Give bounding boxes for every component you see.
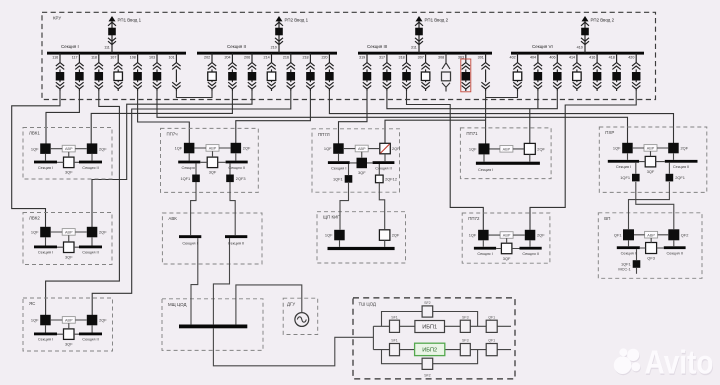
incoming breaker 410 from РП2 Ввод 2 (581, 16, 589, 53)
internal wires of ЯС (46, 320, 93, 334)
feeder breaker 220 (325, 53, 334, 91)
svg-text:3QF: 3QF (358, 170, 366, 175)
breaker 2QF of ЛВК2 (87, 227, 98, 238)
АВР auto-transfer unit of ЯС (62, 317, 75, 324)
breaker 1QF of ЛВК2 (40, 227, 51, 238)
wire АВК bus II to МЩ ЦОД (213, 238, 229, 325)
sub-breaker 1QF1 of ПП7ч (192, 175, 200, 183)
svg-text:2QF: 2QF (99, 146, 107, 151)
panel ПП72 dashed box (462, 213, 550, 263)
bus Секция II of АВК (225, 235, 247, 238)
switch SF3 (bottom row) (460, 344, 470, 356)
svg-text:1QF: 1QF (175, 146, 183, 151)
switch SF1 (bottom row) (390, 344, 400, 356)
panel ЩП КИП dashed box (317, 212, 406, 263)
svg-text:1QF: 1QF (324, 146, 332, 151)
svg-text:210: 210 (271, 45, 277, 49)
svg-text:318: 318 (399, 55, 405, 59)
bus Секция I of ЛВК2 (34, 246, 57, 249)
panel МЩ ЦОД dashed box (162, 299, 263, 351)
wire 319 to ПП7Л 1QF (339, 91, 368, 144)
red highlight box around feeder 303 (461, 59, 471, 92)
wire 220 to ПХР 2QF (329, 91, 673, 143)
svg-text:108: 108 (130, 55, 136, 59)
svg-text:3QF: 3QF (65, 170, 73, 175)
wire ПХР 1QF1 to ВП QF2 (636, 182, 674, 229)
svg-text:2QF: 2QF (392, 233, 400, 238)
busbar Секция I (47, 52, 186, 55)
feeder breaker 108 (133, 53, 142, 91)
bus Секция I of ЯС (34, 333, 57, 336)
svg-text:ПП72: ПП72 (468, 216, 480, 221)
tie feeder 301 (481, 53, 489, 91)
wire ПП7ч 2QF3 to АВК bus II (230, 182, 235, 235)
bus Секция I of ЛВК1 (34, 161, 57, 164)
incoming breaker 210 from РП2 Ввод 1 (275, 16, 283, 53)
feeder breaker 319 (363, 53, 372, 91)
breaker 2QF of ЩП КИП (379, 230, 390, 241)
svg-text:SF3: SF3 (462, 315, 469, 319)
internal wires of ВП (629, 235, 674, 248)
bus Секция I of АВК (179, 235, 201, 238)
wire 318 to ПП72 1QF (407, 91, 484, 230)
feeder breaker 218 (306, 53, 315, 91)
panel ЛВК2 dashed box (23, 213, 112, 265)
svg-text:Секция III: Секция III (367, 44, 387, 49)
wire 218 to ПП7ч 2QF (236, 91, 311, 143)
bus Секция II of ВП (664, 246, 686, 249)
svg-text:Секция I: Секция I (616, 164, 631, 169)
wire tie 101 to 202 (176, 91, 212, 98)
wire 317/404/406 rail to ПП71 2QF (387, 91, 557, 144)
feeder breaker 214 (open) (267, 53, 276, 91)
feeder breaker 318 (402, 53, 411, 91)
diesel generator circle ДГУ (295, 313, 309, 327)
svg-text:Секция II: Секция II (673, 164, 689, 169)
svg-text:118: 118 (91, 55, 97, 59)
internal wires of ПП7ч (189, 148, 236, 162)
svg-text:308: 308 (438, 55, 444, 59)
svg-text:2QF: 2QF (537, 233, 545, 238)
breaker 2QF of ЛВК1 (87, 143, 98, 154)
svg-text:107: 107 (110, 55, 116, 59)
АВР auto-transfer unit of ЛВК1 (62, 145, 75, 152)
svg-text:3QF: 3QF (209, 170, 217, 175)
panel ПХР dashed box (599, 127, 707, 192)
svg-text:3QF: 3QF (65, 342, 73, 347)
svg-text:АВР: АВР (647, 147, 655, 151)
breaker 1QF of ПП71 (479, 143, 490, 154)
svg-text:301: 301 (478, 55, 484, 59)
svg-text:1QF: 1QF (469, 233, 477, 238)
svg-text:SF1: SF1 (391, 339, 398, 343)
breaker 2QF of ПП7Л (380, 143, 391, 154)
svg-text:402: 402 (510, 55, 516, 59)
breaker 1QF of ПХР (622, 143, 633, 154)
wire ПП7Л 1QF1 to ЩП КИП 1QF (340, 182, 349, 230)
bus-tie breaker 3QF of ЛВК1 (64, 157, 75, 168)
feeder breaker 303 (highlighted) (462, 53, 471, 91)
feeder breaker 117 (75, 53, 84, 91)
svg-text:1QF: 1QF (31, 230, 39, 235)
breaker QF1 of ВП (623, 229, 634, 240)
panel ВП dashed box (598, 213, 702, 278)
svg-text:2QF: 2QF (681, 146, 689, 151)
svg-text:ИБП1: ИБП1 (422, 325, 437, 331)
svg-text:QF3: QF3 (647, 255, 655, 260)
busbar Секция VI (511, 52, 644, 55)
panel ЛВК1 dashed box (23, 128, 112, 180)
UPS unit ИБП2 (active, green) (415, 343, 445, 355)
svg-text:Секция I: Секция I (182, 165, 197, 170)
svg-text:МЩ ЦОД: МЩ ЦОД (168, 302, 186, 307)
breaker 1QF of ЛВК1 (40, 143, 51, 154)
breaker QF1 (top row) (486, 320, 497, 332)
bus Секция II of ЛВК2 (79, 246, 102, 249)
svg-text:Секция I: Секция I (182, 241, 197, 246)
svg-text:202: 202 (204, 55, 210, 59)
wire tie tap to ПП7Л 2QF (385, 120, 486, 143)
svg-text:Секция II: Секция II (375, 165, 391, 170)
bus Секция II of ПП7ч (226, 161, 248, 164)
incoming breaker 311 from РП1 Ввод 2 (415, 16, 423, 53)
wire 103 to ПХР 1QF (157, 91, 628, 143)
wire 108 to ПП7ч 1QF (138, 91, 190, 143)
bus Секция I of ПП71 (476, 162, 540, 165)
sub-breaker 2QF1 of ПХР (666, 174, 674, 182)
bus-tie breaker 3QF of ПП7Л (357, 158, 368, 169)
svg-text:Секция I: Секция I (331, 165, 346, 170)
internal wires of ПХР (628, 148, 674, 162)
svg-text:ИБП2: ИБП2 (422, 348, 437, 354)
bus-tie breaker 3QF of ЛВК2 (64, 242, 75, 253)
incoming breaker 111 from РП1 Ввод 1 (108, 16, 116, 53)
stub wire below 1QF1 МСС-1 (636, 268, 638, 274)
feeder breaker 206 (248, 53, 257, 91)
panel ПП7ч dashed box (161, 128, 259, 192)
bus Секция II of ПП7Л (373, 161, 395, 164)
svg-text:311: 311 (411, 45, 417, 49)
breaker 1QF of ЯС (40, 315, 51, 326)
АВР auto-transfer unit of ПП71 (500, 146, 513, 153)
svg-text:ТШ ЦОД: ТШ ЦОД (359, 302, 376, 307)
bus Секция II of ЯС (79, 333, 102, 336)
bus-tie breaker QF3 of ВП (646, 243, 657, 254)
breaker 1QF of ЩП КИП (334, 230, 345, 241)
UPS unit ИБП1 (415, 321, 445, 333)
feeder breaker 416 (593, 53, 602, 91)
svg-text:2QF: 2QF (99, 230, 107, 235)
svg-text:Секция I: Секция I (38, 250, 53, 255)
bypass switch SF2 (top) (422, 306, 433, 317)
svg-text:Секция VI: Секция VI (532, 44, 553, 49)
svg-text:1QF: 1QF (31, 146, 39, 151)
svg-text:РП2 Ввод 1: РП2 Ввод 1 (285, 17, 309, 22)
АВР auto-transfer unit of ПП72 (500, 232, 513, 239)
svg-text:317: 317 (379, 55, 385, 59)
svg-text:216: 216 (283, 55, 289, 59)
svg-text:3QF: 3QF (503, 256, 511, 261)
svg-text:АВР: АВР (65, 231, 73, 235)
breaker 1QF of ПП7ч (184, 143, 195, 154)
svg-text:ПП71: ПП71 (466, 131, 478, 136)
wire 206 to ЛВК2 2QF (92, 91, 252, 227)
svg-text:307: 307 (418, 55, 424, 59)
bus Секция I of ПП7ч (178, 161, 200, 164)
svg-text:1QF: 1QF (613, 146, 621, 151)
svg-text:Секция II: Секция II (227, 44, 246, 49)
bus-tie breaker 3QF of ПХР (645, 156, 656, 167)
feeder breaker 317 (383, 53, 392, 91)
svg-text:2QF1: 2QF1 (675, 175, 685, 180)
bus Секция I of ПХР (608, 160, 639, 163)
feeder breaker 406 (553, 53, 562, 91)
wire 117 to ЛВК1 1QF (46, 91, 79, 144)
АВР auto-transfer unit of ВП (645, 231, 658, 238)
wire МЩ ЦОД to ТШ ЦОД feed (213, 328, 373, 366)
wire ПП7ч 1QF1 to АВК bus I (191, 182, 196, 235)
svg-text:Avito: Avito (645, 344, 714, 381)
svg-text:2QF: 2QF (243, 146, 251, 151)
bus of ЩП КИП (328, 247, 395, 250)
breaker 2QF of ПП72 (525, 230, 536, 241)
svg-text:ПП7ч: ПП7ч (167, 131, 178, 136)
breaker 2QF of ПП7ч (231, 143, 242, 154)
svg-text:ДГУ: ДГУ (287, 302, 295, 307)
svg-text:2QF: 2QF (537, 147, 545, 152)
sub-breaker 1QF1 of ПП7Л (345, 175, 353, 183)
svg-text:206: 206 (244, 55, 250, 59)
svg-text:Секция I: Секция I (61, 44, 79, 49)
svg-text:117: 117 (72, 55, 78, 59)
svg-text:2QF: 2QF (392, 146, 400, 151)
svg-text:220: 220 (321, 55, 327, 59)
svg-text:QF1: QF1 (614, 232, 622, 237)
feeder breaker 118 (95, 53, 104, 91)
panel ПП71 dashed box (460, 128, 551, 179)
svg-text:АВК: АВК (168, 216, 177, 221)
svg-text:410: 410 (577, 45, 583, 49)
svg-text:2QF3: 2QF3 (236, 176, 246, 181)
svg-text:Секция II: Секция II (82, 337, 98, 342)
bus-tie breaker 3QF of ПП7ч (207, 157, 218, 168)
breaker 2QF of ПП71 (524, 143, 535, 154)
АВР auto-transfer unit of ПХР (644, 145, 657, 152)
wire ПХР 2QF1 to ВП QF1 (629, 182, 670, 229)
feeder breaker 414 (open) (573, 53, 582, 91)
bus Секция I of ПП72 (474, 247, 496, 250)
svg-text:1QF1: 1QF1 (620, 175, 630, 180)
svg-text:КРУ: КРУ (53, 16, 61, 21)
internal wires of ЩП КИП (340, 240, 385, 247)
svg-text:РП1 Ввод 2: РП1 Ввод 2 (425, 17, 449, 22)
bus Секция II of ЛВК1 (79, 161, 102, 164)
wire ПП7Л 2QF12 to ЩП КИП 2QF (379, 182, 384, 230)
svg-text:Секция II: Секция II (82, 250, 98, 255)
busbar Секция II (197, 52, 337, 55)
busbar Секция III (358, 52, 492, 55)
svg-text:218: 218 (302, 55, 308, 59)
tie feeder 101 (172, 53, 180, 91)
svg-text:ЛВК2: ЛВК2 (29, 216, 40, 221)
sub-breaker 1QF1 of ВП (633, 260, 641, 268)
svg-text:АВР: АВР (358, 147, 366, 151)
svg-text:РП2 Ввод 2: РП2 Ввод 2 (591, 17, 615, 22)
svg-text:Секция I: Секция I (478, 167, 493, 172)
svg-text:Секция I: Секция I (38, 337, 53, 342)
АВР auto-transfer unit of ПП7Л (355, 145, 368, 152)
bus-tie breaker 3QF of ПП72 (501, 243, 512, 254)
switch SF3 (top row) (460, 320, 470, 332)
svg-text:404: 404 (530, 55, 536, 59)
svg-text:204: 204 (224, 55, 230, 59)
wire 216 to ЯС 2QF (92, 91, 291, 315)
svg-text:ЩП КИП: ЩП КИП (323, 215, 340, 220)
voltage transformer feeder 308 (442, 53, 451, 92)
bus Секция I of ПП7Л (328, 161, 350, 164)
svg-text:2QF12: 2QF12 (385, 177, 397, 182)
feeder breaker 420 (632, 53, 641, 91)
wire 420 to ПП72 2QF (530, 91, 636, 230)
panel ЯС dashed box (23, 298, 113, 351)
svg-text:111: 111 (104, 45, 110, 49)
sub-breaker 1QF1 of ПХР (632, 174, 640, 182)
breaker QF1 (bottom row) (486, 344, 497, 356)
feeder breaker 103 (153, 53, 162, 91)
feeder breaker 404 (534, 53, 543, 91)
svg-text:Секция II: Секция II (228, 165, 244, 170)
svg-text:ПП7Л: ПП7Л (318, 132, 330, 137)
feeder breaker 116 (56, 53, 65, 91)
breaker 2QF of ПХР (668, 143, 679, 154)
svg-text:АВР: АВР (65, 319, 73, 323)
bus Секция II of ПХР (665, 160, 698, 163)
svg-text:Секция II: Секция II (522, 251, 538, 256)
bus Секция I of ВП (617, 246, 640, 249)
ТШ ЦОД cabinet dashed box (353, 298, 515, 379)
tie feeder breaker 202 (open) (208, 53, 217, 91)
panel ПП7Л dashed box (312, 129, 400, 192)
bus Секция II of ПП72 (520, 247, 542, 250)
breaker 1QF of ПП7Л (333, 143, 344, 154)
feeder breaker 204 (228, 53, 237, 91)
svg-text:420: 420 (628, 55, 634, 59)
svg-text:РП1 Ввод 1: РП1 Ввод 1 (118, 17, 142, 22)
svg-text:406: 406 (549, 55, 555, 59)
feeder breaker 307 (open) (421, 53, 430, 91)
panel ДГУ dashed box (283, 298, 318, 334)
svg-text:АВР: АВР (503, 234, 511, 238)
svg-text:214: 214 (264, 55, 270, 59)
internal wires of ПП71 (484, 149, 530, 162)
internal wires of ЛВК1 (46, 149, 93, 163)
wire tie 301 to 402 and down to ПП71 1QF (486, 91, 518, 144)
svg-text:SF1: SF1 (391, 315, 398, 319)
svg-text:QF2: QF2 (681, 232, 689, 237)
svg-text:МСС-1: МСС-1 (618, 267, 630, 272)
sub-breaker 2QF3 of ПП7ч (226, 175, 234, 183)
svg-text:Секция II: Секция II (228, 241, 244, 246)
svg-text:418: 418 (609, 55, 615, 59)
svg-text:Секция II: Секция II (82, 165, 98, 170)
bus-tie breaker 3QF of ЯС (64, 329, 75, 340)
КРУ cabinet dashed enclosure (42, 12, 656, 99)
bypass switch SF2 (bottom) (422, 358, 433, 369)
breaker 2QF of ЯС (87, 315, 98, 326)
wire 204 to ЛВК1 2QF (91, 91, 232, 144)
svg-text:АВР: АВР (647, 233, 655, 237)
svg-text:SF2: SF2 (424, 301, 431, 305)
svg-text:1QF1: 1QF1 (333, 177, 343, 182)
wire 116 to ЛВК2 1QF (12, 91, 60, 227)
bus of МЩ ЦОД (179, 325, 247, 329)
svg-text:Секция II: Секция II (666, 251, 682, 256)
svg-text:1QF1: 1QF1 (180, 176, 190, 181)
svg-text:Секция I: Секция I (477, 251, 492, 256)
wire ДГУ to МЩ ЦОД (236, 285, 302, 325)
svg-text:АВР: АВР (503, 147, 511, 151)
feeder breaker 107 (open) (114, 53, 123, 91)
sub-breaker 2QF12 of ПП7Л (376, 175, 384, 183)
feeder breaker 216 (287, 53, 296, 91)
wire АВК bus I to МЩ ЦОД (191, 238, 198, 325)
svg-text:ВП: ВП (604, 216, 610, 221)
svg-text:QF1: QF1 (488, 339, 495, 343)
svg-text:3QF: 3QF (65, 255, 73, 260)
breaker 1QF of ПП72 (478, 230, 489, 241)
svg-text:1QF: 1QF (31, 318, 39, 323)
svg-text:2QF: 2QF (99, 318, 107, 323)
АВР auto-transfer unit of ЛВК2 (62, 229, 75, 236)
svg-text:QF1: QF1 (488, 315, 495, 319)
svg-text:АВР: АВР (209, 147, 217, 151)
svg-text:319: 319 (359, 55, 365, 59)
switch SF1 (top row) (390, 320, 400, 332)
wire 118 to ЯС 1QF (46, 91, 120, 315)
internal wires of ПП7Л (339, 149, 386, 163)
svg-text:1QF: 1QF (469, 147, 477, 152)
svg-text:SF2: SF2 (424, 373, 431, 377)
breaker QF2 of ВП (668, 229, 679, 240)
svg-text:ЯС: ЯС (29, 301, 35, 306)
feeder breaker 418 (612, 53, 621, 91)
svg-text:116: 116 (52, 55, 58, 59)
svg-text:3QF: 3QF (647, 169, 655, 174)
internal wires of ЛВК2 (46, 232, 93, 247)
svg-text:Секция I: Секция I (621, 251, 636, 256)
svg-text:416: 416 (589, 55, 595, 59)
Avito watermark logo (614, 344, 714, 382)
svg-text:103: 103 (149, 55, 155, 59)
svg-text:ПХР: ПХР (605, 130, 614, 135)
ТШ ЦОД internal wires (373, 312, 511, 364)
svg-text:Секция I: Секция I (38, 165, 53, 170)
svg-text:1QF: 1QF (325, 233, 333, 238)
svg-text:101: 101 (168, 55, 174, 59)
internal wires of ПП72 (483, 235, 530, 248)
tie feeder breaker 402 (open) (513, 53, 522, 91)
panel АВК dashed box (162, 213, 262, 264)
svg-text:АВР: АВР (65, 147, 73, 151)
svg-text:ЛВК1: ЛВК1 (29, 131, 40, 136)
АВР auto-transfer unit of ПП7ч (206, 145, 219, 152)
svg-text:SF3: SF3 (462, 339, 469, 343)
svg-text:414: 414 (569, 55, 575, 59)
